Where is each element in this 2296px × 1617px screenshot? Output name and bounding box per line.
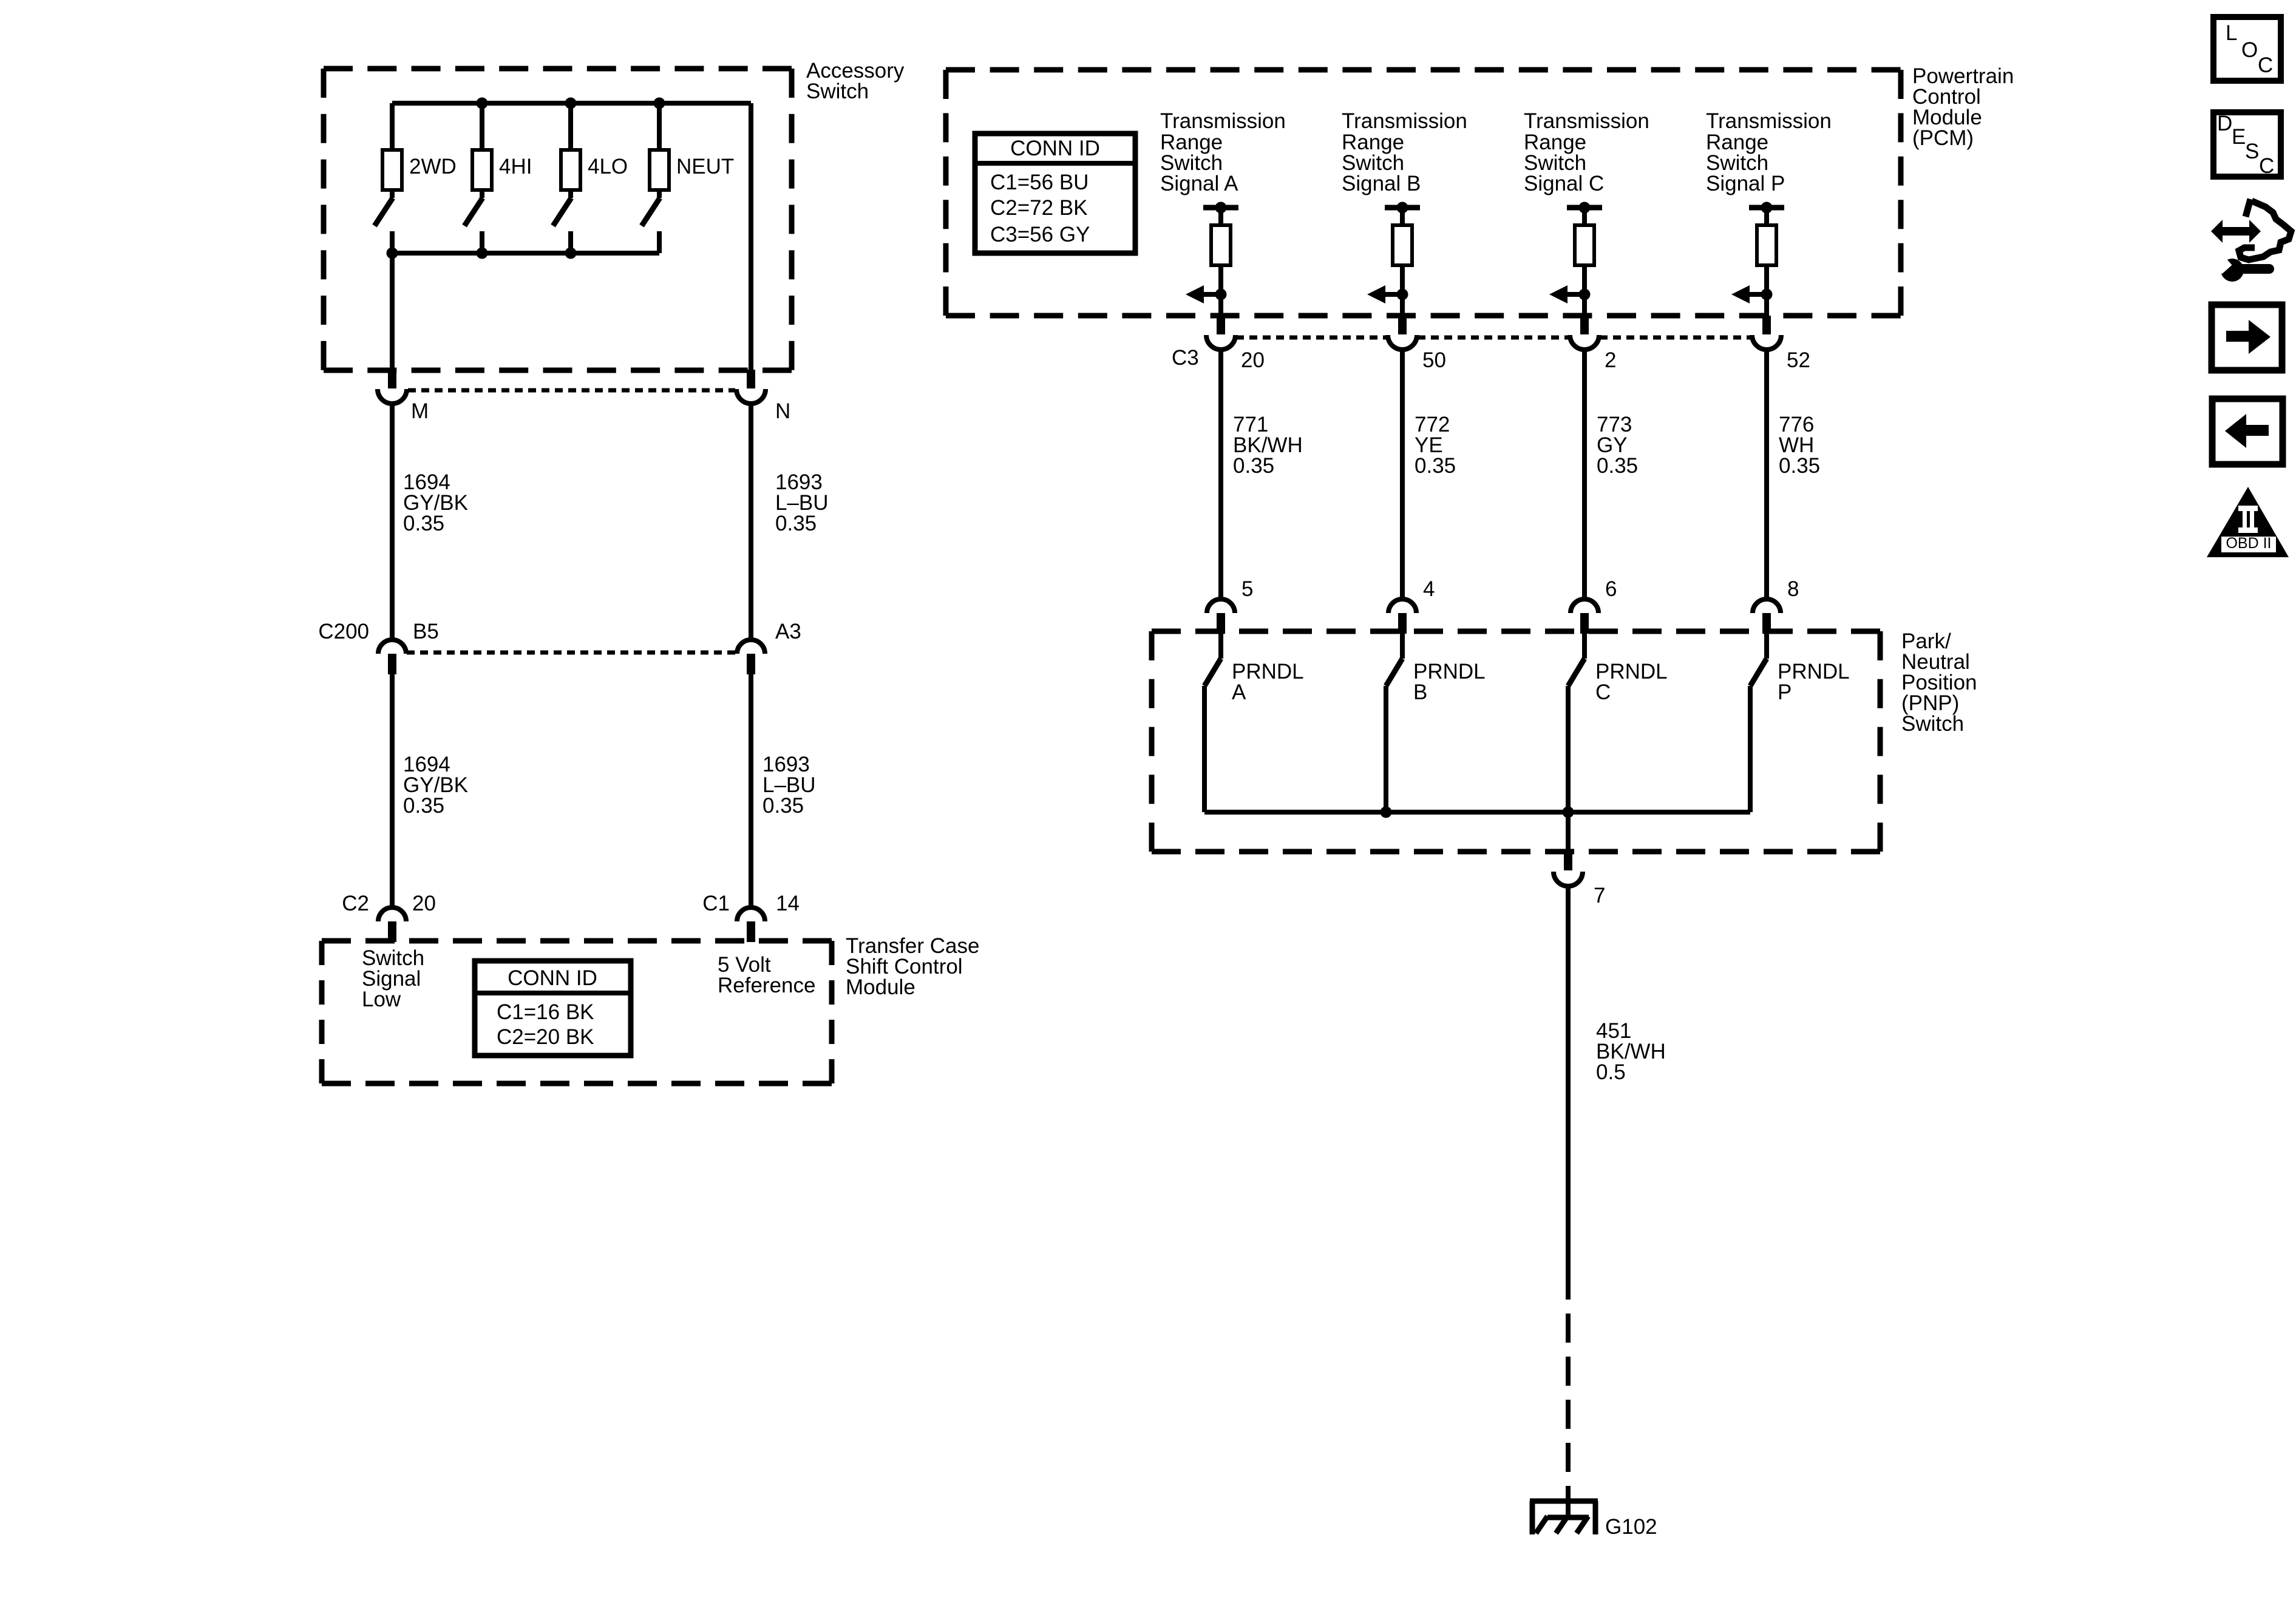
svg-text:B: B bbox=[1413, 680, 1427, 704]
svg-text:Low: Low bbox=[362, 988, 401, 1011]
connector C3 pin 2 bbox=[1570, 316, 1599, 350]
svg-text:6: 6 bbox=[1605, 577, 1617, 601]
label PRNDL B bbox=[1413, 660, 1486, 704]
switch branch NEUT bbox=[642, 103, 669, 253]
label wire 451 BK/WH 0.5 bbox=[1596, 1019, 1666, 1084]
svg-text:Switch: Switch bbox=[1901, 712, 1964, 736]
svg-text:14: 14 bbox=[776, 892, 800, 915]
label wire 776 WH 0.35 bbox=[1779, 413, 1820, 478]
svg-text:52: 52 bbox=[1787, 348, 1810, 372]
Park/Neutral Position (PNP) Switch box bbox=[1152, 631, 1880, 852]
switch PRNDL C bbox=[1568, 634, 1584, 812]
connector C200 terminal B5 bbox=[378, 640, 406, 674]
CONN ID table (PCM) bbox=[975, 134, 1135, 253]
svg-text:C1=16 BK: C1=16 BK bbox=[497, 1000, 594, 1024]
connector PNP pin 6 bbox=[1571, 599, 1598, 634]
wire 776 bbox=[1764, 350, 1769, 599]
label PRNDL C bbox=[1595, 660, 1668, 704]
svg-text:CONN ID: CONN ID bbox=[508, 966, 597, 990]
svg-text:2: 2 bbox=[1605, 348, 1616, 372]
svg-text:7: 7 bbox=[1594, 884, 1605, 907]
svg-text:Transmission: Transmission bbox=[1342, 109, 1467, 133]
connector PNP pin 8 bbox=[1753, 599, 1781, 634]
label PRNDL A bbox=[1232, 660, 1304, 704]
wire 772 bbox=[1400, 350, 1405, 599]
connector C3 pin 20 bbox=[1206, 316, 1235, 350]
junction bbox=[477, 248, 488, 259]
svg-text:C2=20 BK: C2=20 BK bbox=[497, 1025, 594, 1049]
icon forward arrow box bbox=[2212, 305, 2282, 370]
wire left branch down to M bbox=[390, 253, 395, 373]
label wire 771 BK/WH 0.35 bbox=[1233, 413, 1303, 478]
connector PNP pin 7 bbox=[1554, 852, 1583, 886]
svg-text:0.35: 0.35 bbox=[1233, 454, 1274, 478]
icon hand with double arrow and wrench bbox=[2211, 199, 2291, 282]
svg-text:NEUT: NEUT bbox=[676, 155, 734, 178]
svg-text:O: O bbox=[2241, 38, 2258, 62]
in-line connector body C200 bbox=[407, 651, 735, 655]
svg-text:M: M bbox=[411, 399, 429, 423]
switch branch 2WD bbox=[375, 103, 402, 253]
wire 451 solid segment bbox=[1566, 886, 1571, 1270]
junction bbox=[387, 248, 398, 259]
svg-text:20: 20 bbox=[1241, 348, 1265, 372]
label wire 1693 L-BU 0.35 bbox=[775, 470, 829, 535]
svg-text:(PCM): (PCM) bbox=[1912, 126, 1974, 150]
icon OBD II triangle bbox=[2207, 487, 2289, 557]
CONN ID table (transfer case) bbox=[475, 961, 631, 1056]
junction bbox=[1381, 807, 1392, 818]
wire bottom bus bbox=[392, 251, 659, 256]
junction bbox=[565, 98, 577, 109]
label wire 772 YE 0.35 bbox=[1415, 413, 1456, 478]
label Transmission Range Switch Signal A bbox=[1160, 109, 1286, 195]
svg-text:B5: B5 bbox=[413, 620, 439, 643]
svg-text:C200: C200 bbox=[318, 620, 369, 643]
svg-text:50: 50 bbox=[1422, 348, 1446, 372]
svg-text:Transmission: Transmission bbox=[1160, 109, 1286, 133]
wire right branch down to N bbox=[749, 103, 753, 373]
svg-text:4LO: 4LO bbox=[588, 155, 628, 178]
switch branch 4LO bbox=[553, 103, 580, 253]
svg-text:4HI: 4HI bbox=[499, 155, 532, 178]
svg-text:G102: G102 bbox=[1605, 1515, 1657, 1539]
ground G102 symbol bbox=[1530, 1501, 1598, 1534]
svg-text:C3: C3 bbox=[1172, 346, 1199, 370]
icon back arrow box bbox=[2212, 399, 2283, 464]
svg-text:C: C bbox=[2259, 154, 2274, 178]
svg-text:D: D bbox=[2217, 112, 2232, 135]
connector pin M bbox=[378, 370, 407, 404]
svg-text:0.35: 0.35 bbox=[1597, 454, 1638, 478]
label wire 1693 L-BU 0.35 (lower) bbox=[763, 753, 816, 818]
label Switch Signal Low bbox=[362, 946, 424, 1011]
PCM output circuit signal P bbox=[1731, 202, 1784, 316]
svg-text:S: S bbox=[2245, 140, 2259, 163]
label Powertrain Control Module (PCM) bbox=[1912, 64, 2014, 150]
label Transmission Range Switch Signal C bbox=[1524, 109, 1649, 195]
PCM output circuit signal C bbox=[1549, 202, 1602, 316]
in-line connector body M-N bbox=[408, 388, 735, 393]
label wire 1694 GY/BK 0.35 (lower) bbox=[403, 753, 468, 818]
Powertrain Control Module (PCM) box bbox=[946, 70, 1901, 316]
svg-text:C2: C2 bbox=[342, 892, 369, 915]
junction bbox=[654, 98, 665, 109]
svg-text:A: A bbox=[1232, 680, 1246, 704]
svg-text:N: N bbox=[775, 399, 790, 423]
Transfer Case Shift Control Module box bbox=[322, 941, 832, 1083]
svg-text:Reference: Reference bbox=[718, 974, 815, 997]
icon LOC box bbox=[2213, 17, 2281, 81]
label Park/Neutral Position (PNP) Switch bbox=[1901, 629, 1977, 736]
svg-text:0.5: 0.5 bbox=[1596, 1060, 1626, 1084]
svg-text:0.35: 0.35 bbox=[403, 794, 444, 818]
wire to pin 7 bbox=[1566, 812, 1571, 852]
PCM output circuit signal A bbox=[1186, 202, 1238, 316]
svg-text:2WD: 2WD bbox=[409, 155, 457, 178]
wire 773 bbox=[1582, 350, 1587, 599]
connector PNP pin 5 bbox=[1207, 599, 1235, 634]
svg-text:0.35: 0.35 bbox=[775, 512, 817, 535]
svg-text:4: 4 bbox=[1423, 577, 1435, 601]
svg-text:C: C bbox=[1595, 680, 1611, 704]
Accessory Switch module box bbox=[324, 69, 792, 370]
svg-text:L: L bbox=[2226, 21, 2237, 45]
label wire 1694 GY/BK 0.35 bbox=[403, 470, 468, 535]
svg-text:Switch: Switch bbox=[806, 80, 869, 103]
label Transmission Range Switch Signal B bbox=[1342, 109, 1467, 195]
svg-text:Transmission: Transmission bbox=[1706, 109, 1832, 133]
switch PRNDL A bbox=[1204, 634, 1221, 812]
PCM output circuit signal B bbox=[1367, 202, 1420, 316]
label 5 Volt Reference bbox=[718, 953, 815, 997]
connector pin N bbox=[736, 370, 766, 404]
svg-text:Transmission: Transmission bbox=[1524, 109, 1649, 133]
wire 1694 lower segment bbox=[390, 674, 395, 907]
wire 1693 upper segment bbox=[749, 403, 753, 640]
svg-text:C: C bbox=[2258, 53, 2273, 77]
connector C200 terminal A3 bbox=[737, 640, 765, 674]
icon DESC box bbox=[2213, 112, 2281, 178]
svg-text:C3=56 GY: C3=56 GY bbox=[990, 223, 1090, 246]
svg-text:5: 5 bbox=[1241, 577, 1253, 601]
label Transfer Case Shift Control Module bbox=[846, 934, 979, 999]
svg-text:P: P bbox=[1778, 680, 1792, 704]
svg-text:E: E bbox=[2232, 125, 2246, 149]
svg-text:0.35: 0.35 bbox=[403, 512, 444, 535]
svg-text:20: 20 bbox=[412, 892, 436, 915]
svg-text:Signal B: Signal B bbox=[1342, 172, 1421, 195]
svg-text:CONN ID: CONN ID bbox=[1010, 137, 1100, 160]
svg-text:OBD II: OBD II bbox=[2226, 535, 2271, 552]
label PRNDL P bbox=[1778, 660, 1850, 704]
connector C3 pin 50 bbox=[1388, 316, 1417, 350]
svg-text:0.35: 0.35 bbox=[1779, 454, 1820, 478]
connector C2 pin 20 bbox=[378, 907, 406, 942]
svg-text:C2=72 BK: C2=72 BK bbox=[990, 196, 1088, 220]
junction bbox=[477, 98, 488, 109]
connector C1 pin 14 bbox=[737, 907, 765, 942]
svg-text:A3: A3 bbox=[775, 620, 801, 643]
svg-text:Signal C: Signal C bbox=[1524, 172, 1604, 195]
switch PRNDL P bbox=[1750, 634, 1767, 812]
label Transmission Range Switch Signal P bbox=[1706, 109, 1832, 195]
wire PNP common bus bbox=[1204, 810, 1750, 815]
wire 771 bbox=[1218, 350, 1223, 599]
wire 1694 upper segment bbox=[390, 403, 395, 640]
connector C3 pin 52 bbox=[1752, 316, 1781, 350]
junction bbox=[565, 248, 577, 259]
wire 1693 lower segment bbox=[749, 674, 753, 907]
svg-text:Signal P: Signal P bbox=[1706, 172, 1785, 195]
svg-text:8: 8 bbox=[1787, 577, 1799, 601]
junction bbox=[1563, 807, 1574, 818]
svg-text:C1: C1 bbox=[702, 892, 730, 915]
label wire 773 GY 0.35 bbox=[1597, 413, 1638, 478]
wire into ground bbox=[1566, 1493, 1571, 1517]
svg-text:Signal A: Signal A bbox=[1160, 172, 1238, 195]
svg-text:0.35: 0.35 bbox=[1415, 454, 1456, 478]
switch branch 4HI bbox=[464, 103, 492, 253]
svg-text:Module: Module bbox=[846, 975, 915, 999]
wire top bus bbox=[392, 101, 751, 106]
svg-text:C1=56 BU: C1=56 BU bbox=[990, 171, 1089, 194]
in-line connector body C3 bbox=[1236, 336, 1751, 340]
connector PNP pin 4 bbox=[1388, 599, 1416, 634]
switch PRNDL B bbox=[1386, 634, 1402, 812]
svg-text:0.35: 0.35 bbox=[763, 794, 804, 818]
wire 451 dashed segment bbox=[1566, 1270, 1571, 1493]
